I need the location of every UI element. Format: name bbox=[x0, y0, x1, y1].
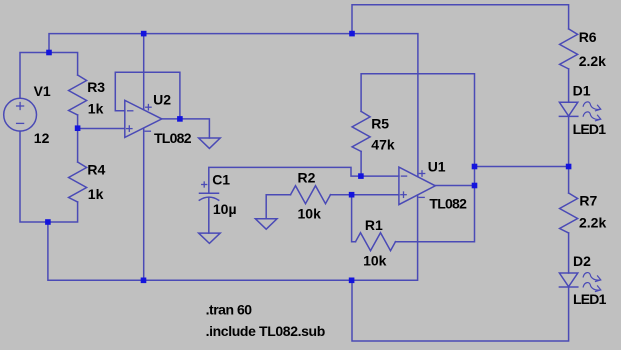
wire D2 bottom along bottom rail up to ground rail node bbox=[352, 280, 569, 341]
resistor R3 bbox=[69, 75, 87, 115]
svg-text:D2: D2 bbox=[573, 253, 591, 269]
wire R3 bottom to R4 top bbox=[77, 115, 79, 162]
wire R7 bottom to D2 top bbox=[568, 233, 570, 273]
wire V+ rail y=33.6 down to U1 V+ pin bbox=[49, 34, 418, 177]
junction V1 top node bbox=[46, 50, 52, 56]
junction ground rail to bottom rail bbox=[349, 278, 355, 284]
junction R3 R4 divider node bbox=[75, 125, 81, 131]
svg-text:R2: R2 bbox=[298, 170, 316, 186]
ground at U2 output bbox=[199, 138, 221, 148]
wire node down to R1 left bbox=[352, 195, 356, 242]
junction U2 V- on ground rail bbox=[141, 278, 147, 284]
junction U1 output node bbox=[472, 183, 478, 189]
wire node to R7 top bbox=[568, 167, 570, 194]
svg-text:1k: 1k bbox=[88, 186, 104, 202]
svg-text:47k: 47k bbox=[371, 137, 395, 153]
svg-text:10k: 10k bbox=[363, 253, 387, 269]
svg-text:U1: U1 bbox=[428, 159, 446, 175]
svg-text:C1: C1 bbox=[212, 171, 230, 187]
svg-text:.tran 60: .tran 60 bbox=[206, 302, 253, 318]
svg-text:LED1: LED1 bbox=[573, 121, 607, 137]
resistor R5 bbox=[352, 111, 370, 151]
wire U1 output bbox=[435, 185, 474, 187]
LED D1 bbox=[559, 102, 600, 121]
svg-text:R1: R1 bbox=[365, 217, 383, 233]
svg-text:R6: R6 bbox=[579, 29, 597, 45]
wire ground rail y=280 up to U1 V- pin bbox=[48, 195, 418, 280]
wire U2 feedback loop output to inverting input bbox=[115, 72, 180, 119]
LED D2 bbox=[559, 273, 600, 292]
wire R2 left to ground bbox=[266, 195, 290, 219]
svg-text:2.2k: 2.2k bbox=[579, 53, 606, 69]
wire U2 V+ pin branch bbox=[143, 34, 145, 109]
wire C1 bottom to ground bbox=[208, 198, 210, 233]
wire D1 bottom to node bbox=[568, 116, 570, 166]
wire C1 node to U1 inverting input bbox=[209, 167, 399, 193]
op-amp U2 bbox=[125, 100, 162, 137]
svg-text:1k: 1k bbox=[88, 100, 104, 116]
wire V1 top to R3 top bbox=[20, 53, 78, 99]
svg-text:R5: R5 bbox=[371, 116, 389, 132]
junction R5 to U1 inverting node bbox=[358, 173, 364, 179]
svg-text:.include TL082.sub: .include TL082.sub bbox=[206, 323, 326, 339]
junction U2 output node bbox=[177, 116, 183, 122]
svg-text:LED1: LED1 bbox=[573, 291, 607, 307]
wire U1 output node to LED string node bbox=[475, 166, 569, 168]
junction R2 R1 U1 noninverting node bbox=[349, 192, 355, 198]
svg-text:2.2k: 2.2k bbox=[579, 215, 606, 231]
junction R6 R7 LED node bbox=[566, 164, 572, 170]
ground below C1 bbox=[199, 233, 221, 243]
svg-text:R3: R3 bbox=[87, 79, 105, 95]
resistor R6 bbox=[560, 29, 578, 69]
wire U2 V- pin down to rail bbox=[143, 129, 145, 280]
junction V1 bottom node bbox=[45, 219, 51, 225]
svg-text:D1: D1 bbox=[573, 83, 591, 99]
junction feedback to LED wire bbox=[472, 164, 478, 170]
op-amp U1 bbox=[399, 167, 435, 205]
svg-text:10µ: 10µ bbox=[213, 201, 237, 217]
ground below R2 bbox=[255, 219, 277, 229]
wire node to U2 noninverting input bbox=[78, 128, 125, 130]
svg-text:TL082: TL082 bbox=[429, 196, 467, 212]
svg-text:TL082: TL082 bbox=[154, 130, 192, 146]
wire R2 right to U1 noninverting input bbox=[331, 194, 399, 196]
svg-text:V1: V1 bbox=[34, 83, 51, 99]
wire top rail from node to R6 bbox=[352, 5, 569, 34]
wire U1 feedback loop R5 top to R1 right bbox=[361, 74, 474, 242]
junction rail to top rail bbox=[349, 31, 355, 37]
capacitor C1 bbox=[199, 182, 218, 200]
resistor R7 bbox=[560, 193, 578, 233]
resistor R4 bbox=[69, 162, 87, 202]
svg-text:U2: U2 bbox=[153, 92, 171, 108]
svg-text:R4: R4 bbox=[87, 161, 105, 177]
voltage source V1 bbox=[4, 98, 37, 131]
svg-text:R7: R7 bbox=[579, 193, 597, 209]
wire R6 bottom to D1 top bbox=[568, 69, 570, 102]
svg-text:12: 12 bbox=[34, 130, 50, 146]
wire U2 output to ground bbox=[162, 119, 210, 138]
resistor R2 bbox=[291, 186, 331, 204]
resistor R1 bbox=[356, 233, 396, 251]
wire V1 bottom to R4 bottom bbox=[20, 131, 78, 222]
junction U2 V+ on rail bbox=[141, 31, 147, 37]
svg-text:10k: 10k bbox=[298, 205, 322, 221]
wire R5 bottom lead to node bbox=[360, 151, 362, 176]
